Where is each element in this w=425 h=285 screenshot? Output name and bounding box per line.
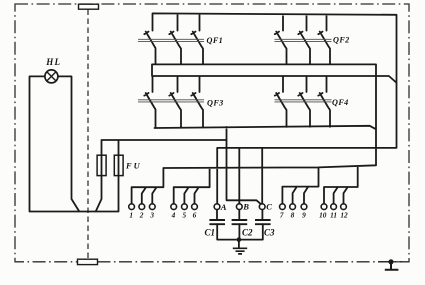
svg-text:QF3: QF3 bbox=[207, 98, 224, 107]
svg-text:HL: HL bbox=[45, 57, 61, 67]
svg-text:9: 9 bbox=[302, 210, 306, 219]
svg-text:2: 2 bbox=[139, 210, 144, 219]
svg-text:6: 6 bbox=[193, 210, 197, 219]
svg-text:5: 5 bbox=[182, 210, 186, 219]
svg-text:1: 1 bbox=[129, 210, 133, 219]
svg-text:12: 12 bbox=[340, 210, 348, 219]
svg-text:A: A bbox=[220, 202, 227, 212]
svg-text:8: 8 bbox=[291, 210, 295, 219]
svg-text:3: 3 bbox=[149, 210, 154, 219]
svg-text:FU: FU bbox=[125, 162, 142, 171]
svg-text:QF1: QF1 bbox=[207, 36, 224, 45]
svg-text:C: C bbox=[266, 201, 272, 211]
svg-text:7: 7 bbox=[280, 210, 284, 219]
svg-text:4: 4 bbox=[171, 210, 176, 219]
svg-text:10: 10 bbox=[319, 210, 327, 219]
svg-text:C2: C2 bbox=[242, 227, 253, 237]
svg-text:B: B bbox=[242, 202, 249, 212]
svg-text:C1: C1 bbox=[205, 227, 216, 237]
svg-text:11: 11 bbox=[330, 210, 337, 219]
svg-text:QF4: QF4 bbox=[332, 98, 349, 107]
svg-text:C3: C3 bbox=[264, 227, 275, 237]
svg-text:QF2: QF2 bbox=[333, 36, 350, 45]
